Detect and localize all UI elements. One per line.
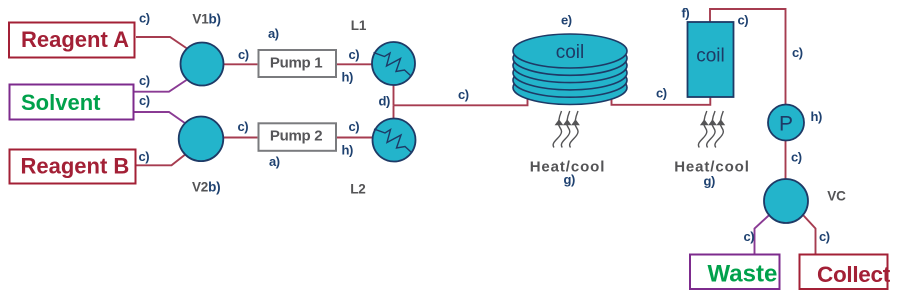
wire Reagent A to V1 <box>136 37 187 49</box>
svg-text:h): h) <box>811 109 822 124</box>
svg-text:P: P <box>779 113 793 136</box>
svg-text:d): d) <box>379 93 390 108</box>
svg-text:h): h) <box>342 142 353 157</box>
svg-text:e): e) <box>561 13 572 28</box>
svg-text:c): c) <box>139 93 150 108</box>
heat/cool arrows 2 <box>698 111 723 148</box>
pump P <box>768 105 804 141</box>
wire V2 to Pump 2 <box>223 137 257 139</box>
box Reagent B <box>10 150 136 184</box>
svg-text:Reagent B: Reagent B <box>21 154 130 179</box>
wire Solvent to V2 <box>134 112 186 124</box>
box Collect <box>800 255 891 290</box>
wire P to VC <box>785 140 787 180</box>
svg-text:g): g) <box>564 172 575 187</box>
svg-text:Solvent: Solvent <box>21 90 101 115</box>
svg-text:V1b): V1b) <box>192 11 220 26</box>
box Solvent <box>10 85 134 120</box>
svg-text:g): g) <box>704 174 715 189</box>
wire Pump 2 to L2 <box>337 137 373 139</box>
svg-text:L1: L1 <box>351 18 367 33</box>
wire node d to coil <box>394 97 528 105</box>
svg-text:Pump 2: Pump 2 <box>270 127 322 144</box>
svg-text:c): c) <box>349 119 360 134</box>
wire Reagent B to V2 <box>136 154 187 166</box>
svg-text:c): c) <box>238 119 249 134</box>
svg-text:Pump 1: Pump 1 <box>270 54 322 71</box>
svg-text:L2: L2 <box>350 181 365 196</box>
box Pump 2 <box>259 123 337 151</box>
valve V2 <box>179 117 224 162</box>
svg-text:Collect: Collect <box>817 262 891 287</box>
svg-text:c): c) <box>238 47 249 62</box>
svg-text:c): c) <box>744 229 755 244</box>
svg-text:c): c) <box>656 86 667 101</box>
valve V1 <box>181 43 224 86</box>
heat/cool arrows 1 <box>553 111 578 148</box>
svg-text:Waste: Waste <box>708 261 778 288</box>
valve VC <box>764 179 808 223</box>
box Waste <box>690 255 780 290</box>
svg-text:coil: coil <box>696 46 725 67</box>
svg-text:VC: VC <box>827 188 846 203</box>
svg-text:a): a) <box>268 26 279 41</box>
wire coil2 top to P <box>710 9 786 106</box>
box Reagent A <box>9 23 135 58</box>
svg-text:V2b): V2b) <box>192 179 220 194</box>
wire VC to Collect <box>804 216 816 255</box>
svg-text:c): c) <box>139 11 150 26</box>
svg-text:a): a) <box>269 154 280 169</box>
svg-text:c): c) <box>819 229 830 244</box>
wire Pump 1 to L1 <box>337 63 373 65</box>
wire coil to coil2 <box>612 97 711 105</box>
wire L1 down to node d <box>393 84 395 105</box>
svg-text:Reagent A: Reagent A <box>21 27 129 52</box>
box Pump 1 <box>259 50 337 77</box>
svg-text:coil: coil <box>556 42 585 63</box>
wire V1 to Pump 1 <box>224 63 258 65</box>
wire VC to Waste <box>755 216 769 255</box>
svg-text:c): c) <box>458 87 469 102</box>
svg-text:c): c) <box>349 47 360 62</box>
coil 2 (column) <box>688 22 734 97</box>
svg-text:c): c) <box>139 73 150 88</box>
wire Solvent to V1 <box>134 80 187 92</box>
mixer L1 <box>372 42 415 85</box>
mixer L2 <box>373 119 416 162</box>
svg-text:h): h) <box>342 70 353 85</box>
wire L2 up to node d <box>393 105 395 119</box>
svg-text:c): c) <box>792 45 803 60</box>
coil (disc stack) <box>513 34 627 105</box>
svg-text:f): f) <box>682 6 690 21</box>
svg-text:c): c) <box>738 13 749 28</box>
svg-text:c): c) <box>139 149 150 164</box>
svg-text:c): c) <box>791 149 802 164</box>
